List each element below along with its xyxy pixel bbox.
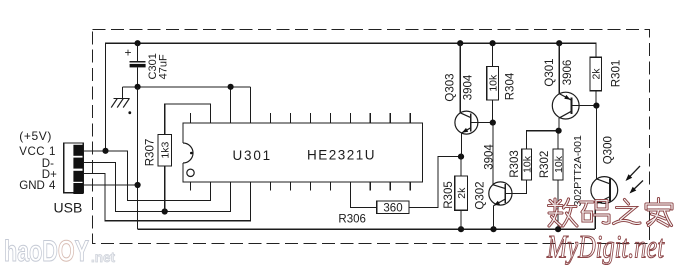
resistor R306 360 — [350, 191, 376, 208]
node R301 / Q301 base / Q300 collector — [593, 103, 599, 109]
IC bottom pins — [191, 182, 411, 191]
resistor R304 10k — [492, 43, 494, 122]
wire D+ — [83, 174, 250, 221]
wire GND vertical — [137, 87, 139, 229]
wire ground node rail — [122, 86, 250, 88]
svg-text:MyDigit.net: MyDigit.net — [546, 230, 664, 266]
node Q303 base / R304 / Q302 collector — [490, 120, 496, 126]
connector USB — [64, 143, 83, 193]
transistor Q303 3904 — [455, 111, 478, 134]
wire +5V top rail — [106, 43, 596, 151]
resistor R305 2k — [460, 157, 462, 230]
wire VCC — [83, 151, 210, 201]
capacitor C301 47uF — [137, 43, 139, 61]
node bottom rail / R305 — [458, 226, 464, 232]
light arrow 1 — [627, 166, 640, 180]
transistor Q301 3906 — [552, 92, 579, 119]
transistor Q302 3904 — [492, 123, 494, 185]
enclosure dashed border — [93, 30, 650, 244]
node VCC / top rail — [102, 148, 108, 154]
node top rail / C301 — [135, 40, 141, 46]
node USB GND junction — [135, 182, 141, 188]
light arrow 2 — [631, 181, 643, 193]
node Q303 emitter junction — [458, 154, 464, 160]
node bottom rail / Q302 emitter — [490, 226, 496, 232]
resistor R307 1k3 — [165, 104, 211, 135]
ground — [121, 87, 123, 99]
node top rail / Q301 emitter — [556, 40, 562, 46]
resistor R301 2k — [595, 91, 597, 106]
node Q301 collector junction — [556, 128, 562, 134]
wire GND from USB — [83, 184, 137, 186]
op-amp U1 IC U301 HE2321U body — [183, 123, 422, 182]
resistor R302 10k — [557, 131, 559, 230]
node ground rail / IC pin — [228, 84, 234, 90]
node bottom rail / R302 — [555, 226, 561, 232]
node top rail / Q303 collector — [457, 40, 463, 46]
wire GND bottom rail — [138, 228, 596, 230]
IC top pins — [191, 113, 411, 123]
node C301-/ground — [135, 84, 141, 90]
transistor Q300 photo — [595, 106, 597, 179]
IC pin-1 marker — [187, 169, 194, 176]
resistor R303 10k — [527, 131, 559, 149]
wire D- — [83, 162, 230, 211]
node D- / R307 — [162, 208, 168, 214]
node top rail / R304 — [490, 40, 496, 46]
svg-text:haoDOY: haoDOY — [4, 235, 89, 268]
svg-text:.net: .net — [91, 250, 116, 265]
